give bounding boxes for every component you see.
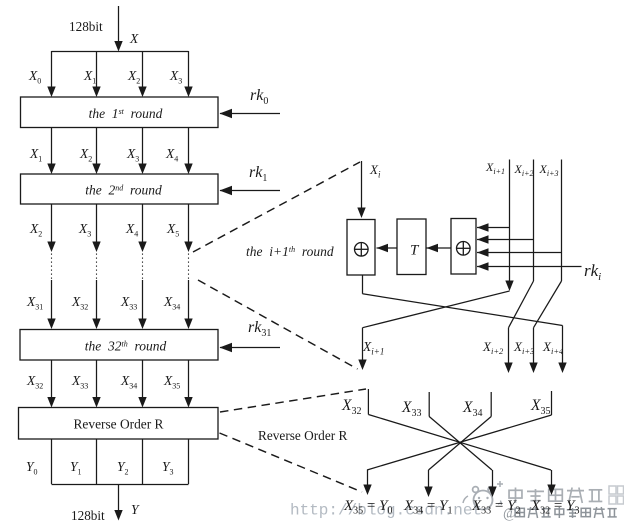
svg-text:X34 = Y1: X34 = Y1 [403,498,452,517]
svg-text:the 1st round: the 1st round [89,106,163,121]
svg-text:128bit: 128bit [71,508,105,523]
svg-text:X32 = Y3: X32 = Y3 [530,498,579,517]
svg-text:X: X [129,31,139,46]
svg-text:Reverse Order R: Reverse Order R [258,428,347,443]
svg-text:the 2nd round: the 2nd round [85,183,162,198]
svg-text:Reverse Order R: Reverse Order R [74,417,164,432]
svg-text:X35 = Y0: X35 = Y0 [343,498,392,517]
svg-text:X33 = Y2: X33 = Y2 [471,498,520,517]
svg-text:128bit: 128bit [69,19,103,34]
